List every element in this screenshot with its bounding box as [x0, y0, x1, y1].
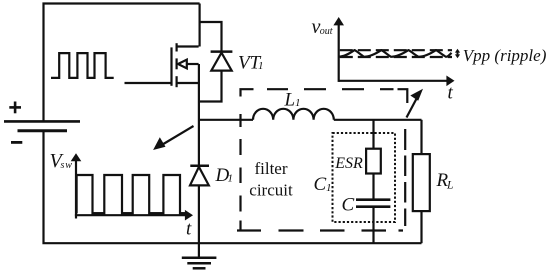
svg-text:out: out: [320, 26, 333, 37]
svg-text:filter: filter: [254, 159, 287, 178]
svg-text:1: 1: [258, 60, 264, 72]
svg-text:C: C: [342, 194, 355, 215]
svg-text:sw: sw: [61, 160, 73, 171]
svg-text:L: L: [284, 89, 296, 110]
svg-text:1: 1: [295, 97, 301, 109]
svg-text:t: t: [186, 218, 192, 239]
svg-text:Vpp (ripple): Vpp (ripple): [463, 46, 547, 65]
svg-text:1: 1: [326, 182, 332, 194]
svg-text:circuit: circuit: [249, 180, 293, 199]
svg-text:1: 1: [228, 172, 234, 184]
svg-text:L: L: [446, 179, 453, 191]
svg-text:C: C: [314, 174, 327, 195]
svg-text:ESR: ESR: [334, 155, 363, 172]
svg-text:t: t: [448, 83, 454, 104]
